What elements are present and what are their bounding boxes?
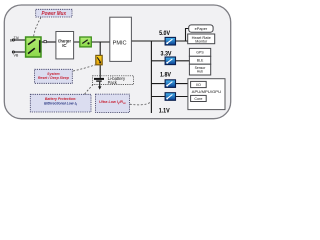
- PMIC U2: [110, 17, 132, 61]
- callout ultra low iq: [96, 94, 130, 112]
- leader ultra low iq: [130, 102, 152, 105]
- callout system reset: [35, 69, 73, 83]
- svg-text:Core: Core: [194, 97, 202, 101]
- svg-text:1.1V: 1.1V: [159, 109, 170, 115]
- leader system reset: [73, 65, 95, 71]
- svg-text:1.8V: 1.8V: [160, 73, 171, 79]
- power mux U1: [26, 37, 41, 57]
- wire 1.8V rail: [151, 83, 190, 85]
- I/O box: [191, 81, 207, 87]
- wire ePaper branch: [186, 29, 189, 42]
- wire PMIC to 5.0V rail: [131, 40, 187, 42]
- APU/MPU/GPU outer box: [188, 79, 225, 110]
- core box: [191, 95, 207, 101]
- svg-text:Power Mux: Power Mux: [42, 11, 67, 17]
- outer rounded panel: [4, 5, 230, 119]
- battery pack dashed label: [92, 76, 133, 85]
- wire input TA: [13, 39, 25, 41]
- leader power mux: [34, 17, 41, 36]
- wire input VB: [13, 51, 25, 53]
- wire charger to PMIC: [74, 41, 110, 43]
- node VB input: [12, 51, 14, 53]
- callout power mux: [36, 9, 72, 17]
- svg-text:BLE: BLE: [197, 59, 204, 63]
- svg-text:Reset / Deep Sleep: Reset / Deep Sleep: [38, 76, 70, 80]
- svg-text:I/O: I/O: [196, 83, 201, 87]
- battery switch yellow: [96, 55, 102, 64]
- switch SW3 3.3V: [165, 57, 175, 65]
- callout battery protection: [30, 94, 91, 112]
- svg-text:5.0V: 5.0V: [159, 31, 170, 37]
- BLE box: [189, 56, 210, 64]
- GPS box: [189, 48, 210, 56]
- svg-text:PMIC: PMIC: [113, 41, 127, 47]
- svg-text:VB: VB: [14, 54, 19, 58]
- svg-text:Pack: Pack: [108, 80, 118, 85]
- switch SW5 5.0V: [165, 37, 175, 45]
- leader battery protection: [85, 85, 93, 95]
- svg-text:TA/: TA/: [14, 36, 19, 40]
- battery symbol: [94, 79, 104, 90]
- heart rate monitor box: [188, 34, 215, 44]
- svg-text:APU/MPU/GPU: APU/MPU/GPU: [192, 89, 222, 94]
- node TA input: [12, 39, 14, 41]
- ePaper box: [189, 25, 213, 32]
- svg-text:Hub: Hub: [197, 69, 203, 73]
- connector square node: [44, 40, 46, 42]
- wire 3.3V rail: [151, 60, 189, 62]
- switch SW11 1.1V: [165, 93, 175, 101]
- charger IC: [56, 32, 74, 59]
- svg-text:3.3V: 3.3V: [161, 51, 172, 57]
- sensor hub box: [189, 64, 210, 75]
- wire 1.1V rail: [151, 96, 190, 98]
- svg-text:ePaper: ePaper: [195, 26, 208, 31]
- switch SW18 1.8V: [165, 80, 175, 88]
- svg-text:GPS: GPS: [196, 51, 204, 55]
- wire battery branch down: [99, 42, 101, 79]
- wire mux output to charger: [41, 41, 56, 43]
- wire vertical bus: [150, 41, 152, 113]
- svg-text:Monitor: Monitor: [195, 40, 208, 44]
- load switch green: [80, 37, 92, 47]
